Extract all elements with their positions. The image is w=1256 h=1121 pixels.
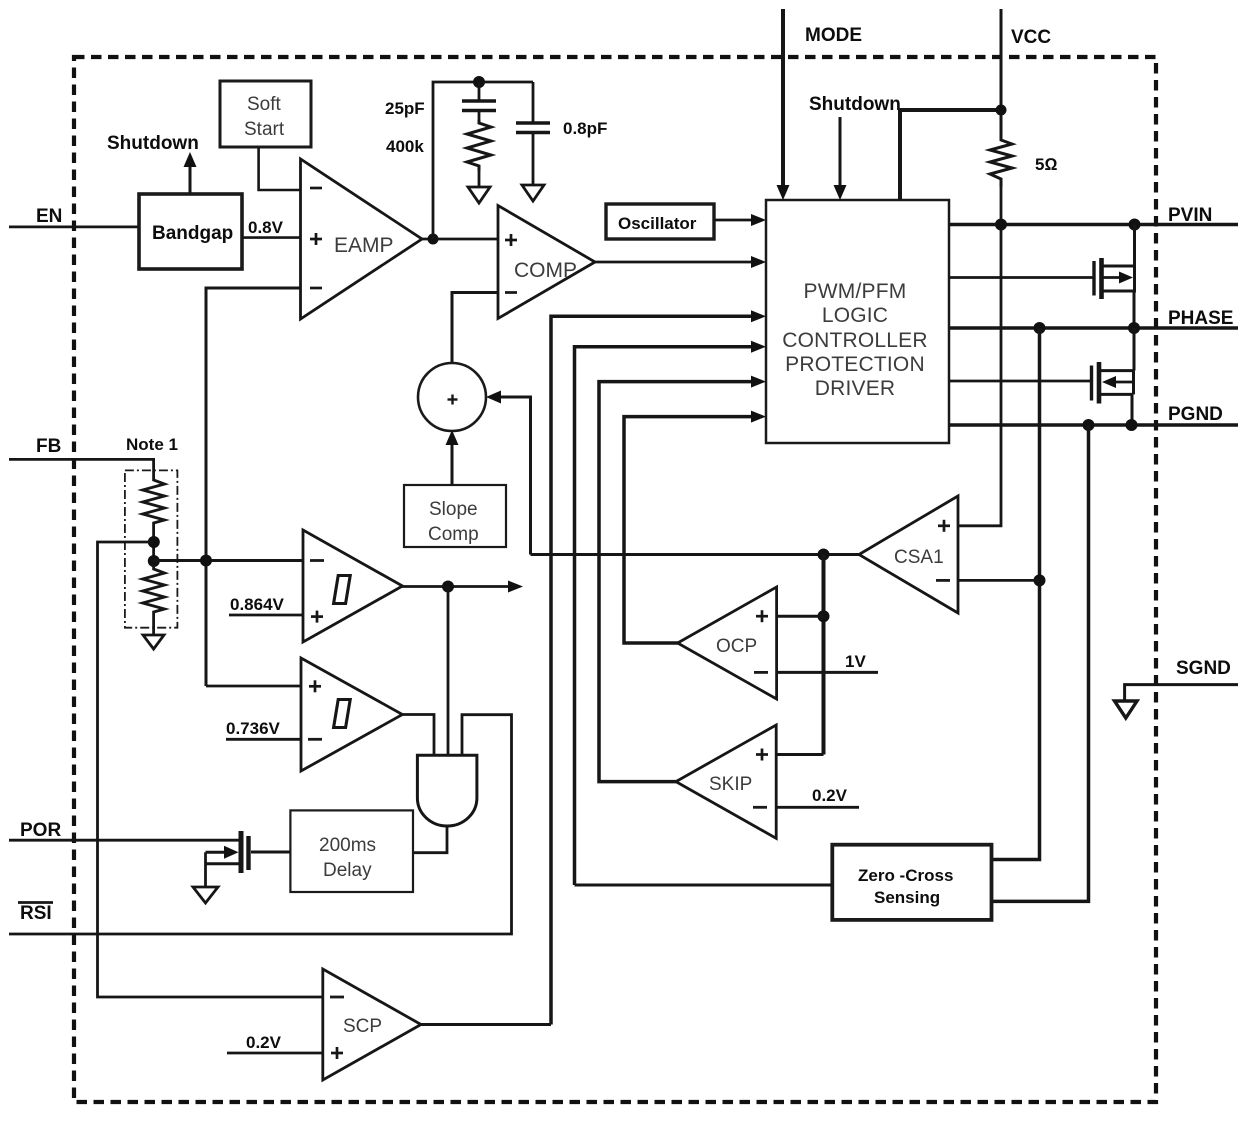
wire CSA1 signal into summer <box>486 391 531 555</box>
wire CSA1 output down to OCP/SKIP <box>822 555 826 755</box>
svg-text:Delay: Delay <box>323 860 372 881</box>
wire POR to transistor gate <box>9 839 240 842</box>
block 200ms Delay <box>290 810 413 892</box>
wire SGND stub <box>1125 685 1238 701</box>
node CSA1 minus tap <box>1034 574 1046 586</box>
label 0.2V (scp) <box>246 1033 282 1052</box>
svg-text:LOGIC: LOGIC <box>822 304 888 327</box>
svg-text:SCP: SCP <box>343 1016 382 1037</box>
wire OVP output with arrow <box>401 581 523 593</box>
svg-text:PWM/PFM: PWM/PFM <box>804 280 907 303</box>
wire to ground <box>478 171 481 187</box>
node PVIN-5ohm <box>995 219 1007 231</box>
block Bandgap <box>139 194 242 269</box>
svg-text:Start: Start <box>244 119 285 140</box>
wire 0.8V Bandgap to EAMP + <box>242 236 301 239</box>
wire EAMP lower - feedback <box>206 288 301 686</box>
svg-text:Oscillator: Oscillator <box>618 214 697 233</box>
svg-text:Zero -Cross: Zero -Cross <box>858 866 953 885</box>
wire SCP feedback to PWM input 3 <box>551 310 766 1024</box>
label Note 1 <box>126 435 178 454</box>
wire EAMP output to COMP + <box>420 238 498 241</box>
label Shutdown (bandgap output) <box>107 133 199 154</box>
svg-text:DRIVER: DRIVER <box>815 377 896 400</box>
wire 0.736V reference <box>226 738 301 741</box>
wire divider mid <box>152 527 155 565</box>
pin label FB <box>36 436 61 457</box>
wire SCP output <box>419 1023 551 1026</box>
wire divider to ground <box>152 617 155 635</box>
comparator OVP 0.864V (hysteresis) <box>303 530 403 642</box>
node PVIN-FET drain <box>1129 219 1141 231</box>
svg-text:0.8V: 0.8V <box>248 218 284 237</box>
wire PVIN rail <box>949 223 1238 227</box>
wire OCP to PWM input 6 <box>624 411 766 643</box>
wire RSI to AND gate input <box>9 715 512 934</box>
svg-text:Shutdown: Shutdown <box>809 94 901 115</box>
label 0.736V <box>226 719 281 738</box>
resistor 400k <box>467 120 491 171</box>
wire PGND rail <box>949 423 1238 427</box>
wire PHASE down to CSA1 - and Zero-Cross <box>992 328 1040 860</box>
svg-text:Sensing: Sensing <box>874 888 940 907</box>
resistor divider lower R <box>143 565 165 617</box>
svg-text:RSI: RSI <box>20 903 52 924</box>
svg-text:OCP: OCP <box>716 636 757 657</box>
AND gate (points down) <box>417 755 477 826</box>
wire SKIP to PWM input 5 <box>599 376 766 782</box>
node PGND-sense <box>1083 419 1095 431</box>
wire VCC branch to PWM top <box>900 110 1001 200</box>
wire OCP + <box>777 615 824 618</box>
svg-text:EN: EN <box>36 206 62 227</box>
resistor divider dash-dot outline (Note 1) <box>125 470 177 627</box>
resistor 5 ohm <box>990 136 1012 187</box>
pin label EN <box>36 206 62 227</box>
svg-text:Shutdown: Shutdown <box>107 133 199 154</box>
svg-text:Soft: Soft <box>247 94 282 115</box>
svg-text:Bandgap: Bandgap <box>152 223 233 244</box>
node divider upper tap <box>148 536 160 548</box>
wire PHASE rail <box>949 326 1238 330</box>
wire PGND down to Zero-Cross <box>992 425 1089 901</box>
node EAMP output <box>428 234 439 245</box>
svg-text:PHASE: PHASE <box>1168 308 1233 329</box>
svg-text:0.736V: 0.736V <box>226 719 281 738</box>
wire AND output to delay <box>413 826 447 853</box>
label 0.864V <box>230 595 285 614</box>
block Soft Start <box>220 81 311 147</box>
svg-text:PGND: PGND <box>1168 404 1223 425</box>
comparator OCP (points left) <box>678 587 777 699</box>
node FB sense junction <box>200 555 212 567</box>
wire COMP - input from summer <box>452 293 498 365</box>
capacitor 0.8pF <box>516 82 550 185</box>
comparator UVP 0.736V (hysteresis) <box>301 658 402 771</box>
ground (0.8pF) <box>522 185 544 201</box>
wire OVP output down to AND <box>447 587 450 757</box>
svg-text:VCC: VCC <box>1011 27 1051 48</box>
pin label MODE <box>805 25 862 46</box>
label 25pF <box>385 99 425 118</box>
wire VCC from top <box>1000 9 1003 136</box>
svg-text:CONTROLLER: CONTROLLER <box>782 329 928 352</box>
summer (+) node circle <box>418 363 486 431</box>
ground (400k) <box>468 187 490 203</box>
node compensation top <box>473 76 485 88</box>
node divider lower tap <box>148 555 160 567</box>
wire Soft Start to EAMP - <box>259 147 301 190</box>
op-amp EAMP <box>301 159 423 319</box>
node OCP plus tap <box>818 610 830 622</box>
wire Shutdown into PWM <box>834 117 847 200</box>
node VCC junction <box>996 105 1007 116</box>
pin label SGND <box>1176 658 1231 679</box>
pin label PGND <box>1168 404 1223 425</box>
svg-text:0.8pF: 0.8pF <box>563 119 607 138</box>
svg-text:0.2V: 0.2V <box>812 786 848 805</box>
wire 5 ohm down to PVIN and CSA1 + <box>958 187 1001 526</box>
pin label RSI (active-low, overbar) <box>18 903 53 925</box>
wire MODE into PWM <box>777 9 790 200</box>
label 400k <box>386 137 424 156</box>
svg-text:400k: 400k <box>386 137 424 156</box>
wire 0.2V reference to SCP + <box>227 1052 323 1055</box>
node PHASE-FET <box>1128 322 1140 334</box>
pin label POR <box>20 820 61 841</box>
svg-text:PVIN: PVIN <box>1168 205 1212 226</box>
transistor POR FET <box>206 831 291 887</box>
wire COMP output to PWM <box>594 256 766 268</box>
wire FB input <box>9 459 154 476</box>
svg-text:Slope: Slope <box>429 499 478 520</box>
wire OCP - reference 1V <box>777 671 878 674</box>
resistor divider upper R <box>143 476 165 527</box>
ground (divider) <box>143 635 164 649</box>
wire SKIP - reference 0.2V <box>776 806 859 809</box>
block Oscillator <box>606 204 714 239</box>
comparator SCP <box>323 969 421 1080</box>
block Slope Comp <box>404 485 506 547</box>
svg-text:25pF: 25pF <box>385 99 425 118</box>
wire divider tap to comparators <box>154 559 303 562</box>
comparator SKIP (points left) <box>676 725 776 838</box>
wire Oscillator to PWM <box>714 214 766 226</box>
svg-text:200ms: 200ms <box>319 835 376 856</box>
pin label PVIN <box>1168 205 1212 226</box>
current sense amp CSA1 (points left) <box>859 496 958 613</box>
svg-text:EAMP: EAMP <box>334 234 394 257</box>
wire compensation network riser and top rail <box>433 82 533 239</box>
label Shutdown (top) <box>809 94 901 115</box>
svg-text:5Ω: 5Ω <box>1035 155 1058 174</box>
wire comparator 2 + from FB rail <box>206 685 301 688</box>
node CSA1 output <box>818 549 830 561</box>
svg-text:POR: POR <box>20 820 61 841</box>
wire EN to Bandgap <box>9 225 139 228</box>
svg-text:0.864V: 0.864V <box>230 595 285 614</box>
node PHASE-sense <box>1034 322 1046 334</box>
svg-text:SGND: SGND <box>1176 658 1231 679</box>
wire Slope Comp into summer <box>446 430 459 485</box>
ground SGND <box>1115 701 1138 718</box>
svg-text:1V: 1V <box>845 652 866 671</box>
wire divider tap to SCP - <box>98 542 323 997</box>
comparator COMP <box>498 206 595 319</box>
wire CSA1 output to summer branch <box>531 553 862 556</box>
node OVP output <box>442 581 454 593</box>
label 0.8V <box>248 218 284 237</box>
wire shutdown arrow from Bandgap <box>184 152 197 194</box>
transistor low-side MOSFET <box>1092 328 1135 425</box>
svg-text:Note 1: Note 1 <box>126 435 178 454</box>
wire 0.864V reference <box>229 614 303 617</box>
capacitor 25pF <box>462 82 496 120</box>
label 0.2V (skip) <box>812 786 848 805</box>
node PGND-FET <box>1126 419 1138 431</box>
svg-text:PROTECTION: PROTECTION <box>785 353 925 376</box>
wire UVP output to AND <box>401 715 434 757</box>
svg-text:MODE: MODE <box>805 25 862 46</box>
wire Zero-Cross to PWM input 4 <box>575 341 767 885</box>
svg-text:Comp: Comp <box>428 524 479 545</box>
svg-text:SKIP: SKIP <box>709 774 752 795</box>
label 1V <box>845 652 866 671</box>
wire Zero-Cross output to left <box>575 884 833 887</box>
wire PWM to low-side gate <box>949 380 1092 383</box>
wire CSA1 - to PHASE sense line <box>958 579 1040 582</box>
svg-text:CSA1: CSA1 <box>894 547 944 568</box>
wire SKIP + <box>776 753 823 756</box>
wire PWM to high-side gate <box>949 276 1094 279</box>
pin label PHASE <box>1168 308 1233 329</box>
label 0.8pF <box>563 119 607 138</box>
ground (POR FET) <box>193 887 218 903</box>
transistor high-side MOSFET <box>1094 225 1136 329</box>
svg-text:FB: FB <box>36 436 61 457</box>
label 5 ohm <box>1035 155 1058 174</box>
block Zero-Cross Sensing <box>832 845 991 920</box>
svg-text:0.2V: 0.2V <box>246 1033 282 1052</box>
block PWM/PFM logic controller <box>766 200 949 443</box>
svg-text:COMP: COMP <box>514 259 577 282</box>
pin label VCC <box>1011 27 1051 48</box>
